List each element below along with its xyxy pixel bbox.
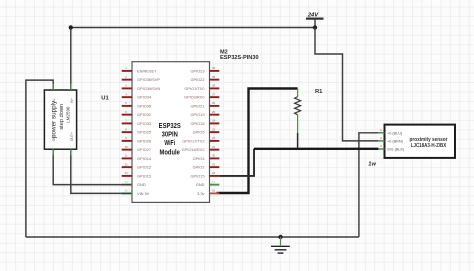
svg-text:19: 19 [212, 162, 216, 166]
svg-text:10: 10 [124, 145, 128, 149]
svg-text:GPIO13: GPIO13 [137, 173, 151, 178]
ESP32 pin 5 GPIO35 [122, 101, 151, 108]
svg-text:GPIO32: GPIO32 [137, 112, 151, 117]
svg-text:SIG (BLK): SIG (BLK) [387, 148, 405, 152]
ESP32 pin 4 GPIO34 [122, 92, 152, 99]
svg-text:5: 5 [125, 101, 127, 105]
pin OUT+ stub [70, 149, 72, 155]
svg-text:GPIO33: GPIO33 [137, 121, 151, 126]
wire: ESP32 3.3v to R1 top (thick) [217, 89, 298, 194]
ESP32 pin 23 GPIO5 [193, 127, 220, 134]
svg-text:22: 22 [212, 136, 216, 140]
wire: 24V rail to U1 IN+ [71, 27, 315, 29]
svg-text:GPIO17/TX2: GPIO17/TX2 [182, 138, 204, 143]
svg-text:+0 (BRN): +0 (BRN) [387, 140, 404, 144]
ESP32 pin 18 GPIO15 [190, 171, 219, 178]
junction dot at 24V [313, 25, 317, 29]
svg-text:GPIO2: GPIO2 [193, 165, 205, 170]
svg-text:VIN 5V: VIN 5V [137, 191, 150, 196]
svg-text:GPIO27: GPIO27 [137, 147, 151, 152]
ESP32 pin 22 GPIO17/TX2 [182, 136, 219, 143]
wire: U1 IN+ pin up [70, 28, 72, 91]
svg-text:3: 3 [125, 84, 127, 88]
svg-text:GPIO18: GPIO18 [190, 121, 204, 126]
svg-text:9: 9 [125, 136, 127, 140]
svg-text:7: 7 [125, 119, 127, 123]
ESP32 pin 14 GND [122, 180, 146, 187]
ESP32 pin 27 GPIO3/RX0 [184, 92, 219, 99]
svg-text:15: 15 [124, 189, 128, 193]
ESP32 pin 21 GPIO16/RX2 [182, 145, 220, 152]
svg-text:GPIO26: GPIO26 [137, 138, 151, 143]
ESP32 pin 28 GPIO1/TX0 [184, 84, 219, 91]
svg-text:20: 20 [212, 154, 216, 158]
ESP32 pin 29 GPIO22 [190, 75, 219, 82]
svg-text:GPIO12: GPIO12 [137, 165, 151, 170]
wire: SIG net to proximity sensor (thick) [254, 148, 378, 150]
wire: right riser to sensor 0V [359, 133, 379, 237]
svg-text:16: 16 [212, 189, 216, 193]
resistor R1 [295, 89, 301, 149]
wire: U1 OUT+ to ESP32 VIN 5V [71, 149, 132, 193]
svg-text:GND: GND [196, 182, 205, 187]
ESP32 pin 19 GPIO2 [193, 162, 220, 169]
svg-text:GPIO23: GPIO23 [190, 68, 204, 73]
wire: U1 OUT- to ESP32 GND [53, 149, 131, 184]
svg-text:6: 6 [125, 110, 127, 114]
ESP32 pin 17 GND [196, 180, 219, 187]
ESP32 title text [159, 122, 182, 156]
svg-text:8: 8 [125, 127, 127, 131]
svg-text:13: 13 [124, 171, 128, 175]
svg-text:12: 12 [124, 162, 128, 166]
ESP32 pin 2 GPIO36/SVP [122, 75, 161, 82]
pin OUT- stub [52, 149, 54, 155]
svg-text:LJC18A3-H-Z/BX: LJC18A3-H-Z/BX [411, 143, 447, 149]
svg-text:3.3v: 3.3v [197, 191, 204, 196]
ESP32 pin 6 GPIO32 [122, 110, 151, 117]
buck converter U1 LM2596 [44, 84, 76, 156]
svg-text:GPIO21: GPIO21 [190, 103, 204, 108]
svg-text:GPIO1/TX0: GPIO1/TX0 [184, 86, 205, 91]
ESP32 pin 11 GPIO14 [122, 154, 152, 161]
wire: U1 IN- to ground rail (left loop) [26, 80, 53, 237]
svg-text:14: 14 [124, 180, 128, 184]
pin IN+ stub [70, 84, 72, 90]
svg-text:23: 23 [212, 127, 216, 131]
svg-text:GPIO5: GPIO5 [193, 130, 205, 135]
svg-text:GPIO25: GPIO25 [137, 130, 151, 135]
ESP32 pin 24 GPIO18 [190, 119, 219, 126]
svg-text:28: 28 [212, 84, 216, 88]
svg-text:27: 27 [212, 92, 216, 96]
svg-text:30: 30 [212, 66, 216, 70]
ESP32 pin 13 GPIO13 [122, 171, 151, 178]
svg-text:1: 1 [125, 66, 127, 70]
svg-text:GPIO36/SVP: GPIO36/SVP [137, 77, 160, 82]
wire: ESP32 GPIO15 to SIG net [219, 149, 254, 176]
sensor pin 3 SIG (BLK) [378, 148, 384, 150]
ESP32 pin 16 3.3v [197, 189, 219, 196]
svg-text:3: 3 [380, 144, 382, 148]
ESP32 pin 1 EN/RESET [122, 66, 157, 73]
ESP32 pin 9 GPIO26 [122, 136, 151, 143]
U1 value label LM2596 step down power supply [51, 100, 71, 138]
svg-text:GPIO19: GPIO19 [190, 112, 204, 117]
svg-text:29: 29 [212, 75, 216, 79]
junction dot at U1 riser [69, 25, 73, 29]
svg-text:11: 11 [125, 154, 128, 158]
ESP32 pin 20 GPIO4 [193, 154, 220, 161]
ground [271, 235, 290, 253]
ESP32 pin 15 VIN 5V [122, 189, 150, 196]
svg-text:25: 25 [212, 110, 216, 114]
ESP32 pin 8 GPIO25 [122, 127, 151, 134]
wire: 24V branch to proximity sensor +V [315, 28, 378, 141]
svg-text:GPIO34: GPIO34 [137, 95, 152, 100]
svg-text:GPIO35: GPIO35 [137, 103, 151, 108]
svg-text:+0 (BLU): +0 (BLU) [387, 131, 403, 135]
pin IN- stub [52, 84, 54, 90]
svg-text:GND: GND [137, 182, 146, 187]
svg-text:24: 24 [212, 119, 216, 123]
proximity sensor U2 LJC18A3-H-Z/BX [378, 125, 455, 158]
ESP32 pin 25 GPIO19 [190, 110, 219, 117]
svg-text:21: 21 [212, 145, 216, 149]
svg-text:17: 17 [212, 180, 216, 184]
svg-text:GPIO39/SVN: GPIO39/SVN [137, 86, 160, 91]
ESP32 pin 10 GPIO27 [122, 145, 151, 152]
svg-text:GPIO16/RX2: GPIO16/RX2 [182, 147, 205, 152]
ESP32 pin 12 GPIO12 [122, 162, 151, 169]
svg-text:GPIO3/RX0: GPIO3/RX0 [184, 95, 205, 100]
wire: ground bottom rail [26, 236, 359, 238]
svg-text:GPIO14: GPIO14 [137, 156, 152, 161]
ESP32 pin 30 GPIO23 [190, 66, 219, 73]
svg-text:26: 26 [212, 101, 216, 105]
power supply 24V symbol [306, 13, 324, 28]
svg-text:2: 2 [125, 75, 127, 79]
svg-text:proximity sensor: proximity sensor [410, 137, 448, 143]
sensor pin 2 +V (BRN) [378, 140, 384, 142]
svg-text:GPIO15: GPIO15 [190, 173, 204, 178]
svg-text:1: 1 [380, 128, 382, 132]
ESP32 pin 26 GPIO21 [190, 101, 219, 108]
svg-text:2: 2 [380, 136, 382, 140]
ESP32 module M2 [132, 62, 210, 203]
ESP32 pin 3 GPIO39/SVN [122, 84, 161, 91]
svg-text:18: 18 [212, 171, 216, 175]
svg-text:GPIO22: GPIO22 [190, 77, 204, 82]
svg-text:GPIO4: GPIO4 [193, 156, 206, 161]
svg-text:EN/RESET: EN/RESET [137, 68, 157, 73]
svg-text:4: 4 [125, 92, 127, 96]
sensor pin 1 0V (BLU) [378, 132, 384, 134]
ESP32 pin 7 GPIO33 [122, 119, 151, 126]
